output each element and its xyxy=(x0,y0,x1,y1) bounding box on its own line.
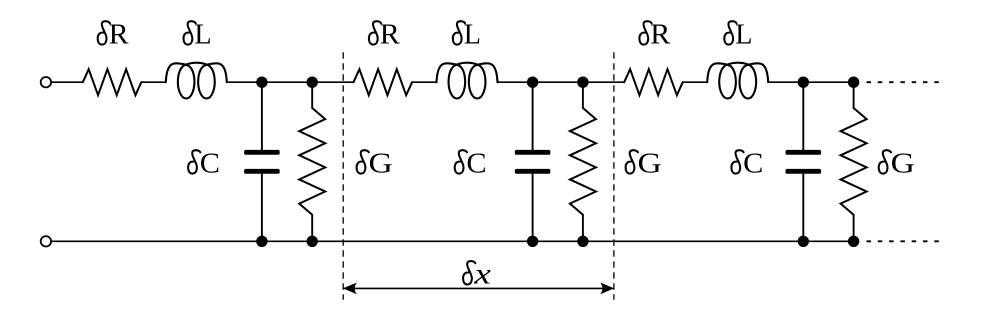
svg-text:L: L xyxy=(464,20,481,51)
label deltaC section 2 xyxy=(455,149,487,180)
node: top of capacitor section 1 xyxy=(256,77,267,88)
resistor deltaG section 3 (shunt) xyxy=(841,82,867,241)
node: bottom of capacitor section 3 xyxy=(798,236,809,247)
resistor deltaG section 1 (shunt) xyxy=(299,82,325,241)
wire top rail: section 1 lead-in xyxy=(51,81,83,83)
capacitor deltaC section 2 (shunt) xyxy=(515,82,551,241)
inductor deltaL section 1 (series) xyxy=(166,63,227,99)
svg-text:C: C xyxy=(466,149,486,180)
terminal bottom-left (open circle) xyxy=(41,236,51,246)
node: bottom of capacitor section 2 xyxy=(527,236,538,247)
node: top of shunt resistor section 1 xyxy=(307,77,318,88)
wire bottom rail xyxy=(51,240,853,242)
wire top rail: section 3 lead-in xyxy=(583,81,624,83)
svg-text:C: C xyxy=(743,149,763,180)
wire between resistor and inductor section 3 xyxy=(683,81,707,83)
svg-text:R: R xyxy=(380,20,400,51)
svg-text:G: G xyxy=(638,149,662,180)
label deltaG section 1 xyxy=(357,149,393,180)
node: top of shunt resistor section 2 xyxy=(577,77,588,88)
svg-text:R: R xyxy=(109,20,129,51)
label deltaR section 3 xyxy=(639,20,670,51)
resistor deltaG section 2 (shunt) xyxy=(570,82,596,241)
svg-text:L: L xyxy=(735,20,752,51)
wire between resistor and inductor section 1 xyxy=(141,81,165,83)
wire between resistor and inductor section 2 xyxy=(412,81,436,83)
inductor deltaL section 2 (series) xyxy=(437,63,498,99)
resistor deltaR section 2 (series) xyxy=(354,69,413,95)
node: top of capacitor section 2 xyxy=(527,77,538,88)
terminal top-left (open circle) xyxy=(41,77,51,87)
wire from inductor to shunt nodes section 1 xyxy=(227,81,312,83)
node: bottom of shunt resistor section 1 xyxy=(307,236,318,247)
node: top of capacitor section 3 xyxy=(798,77,809,88)
dashed boundary line left (start of section 2) xyxy=(342,52,344,299)
label deltaR section 2 xyxy=(369,20,400,51)
label deltaG section 2 xyxy=(626,149,662,180)
node: top of shunt resistor section 3 xyxy=(848,77,859,88)
dimension arrow deltaX between boundaries xyxy=(342,283,615,295)
label deltaR section 1 xyxy=(98,20,129,51)
label deltaL section 3 xyxy=(724,20,752,51)
wire bottom rail dotted continuation xyxy=(867,240,940,242)
label deltaL section 1 xyxy=(184,20,212,51)
wire from inductor to shunt nodes section 3 xyxy=(768,81,853,83)
svg-text:G: G xyxy=(891,149,915,180)
inductor deltaL section 3 (series) xyxy=(707,63,768,99)
svg-text:R: R xyxy=(650,20,670,51)
node: bottom of capacitor section 1 xyxy=(256,236,267,247)
capacitor deltaC section 1 (shunt) xyxy=(244,82,280,241)
wire from inductor to shunt nodes section 2 xyxy=(498,81,583,83)
label deltaC section 1 xyxy=(188,149,220,180)
capacitor deltaC section 3 (shunt) xyxy=(786,82,822,241)
label deltaL section 2 xyxy=(453,20,481,51)
resistor deltaR section 3 (series) xyxy=(624,69,683,95)
wire top rail dotted continuation xyxy=(867,81,940,83)
label deltaX (section length) xyxy=(463,258,492,291)
resistor deltaR section 1 (series) xyxy=(83,69,142,95)
node: bottom of shunt resistor section 2 xyxy=(577,236,588,247)
svg-text:x: x xyxy=(473,258,492,291)
dashed boundary line right (end of section 2) xyxy=(613,52,615,299)
svg-text:L: L xyxy=(194,20,211,51)
wire top rail: section 2 lead-in xyxy=(312,81,353,83)
svg-text:G: G xyxy=(369,149,393,180)
node: bottom of shunt resistor section 3 xyxy=(848,236,859,247)
svg-text:C: C xyxy=(200,149,220,180)
label deltaG section 3 xyxy=(879,149,915,180)
label deltaC section 3 xyxy=(731,149,763,180)
